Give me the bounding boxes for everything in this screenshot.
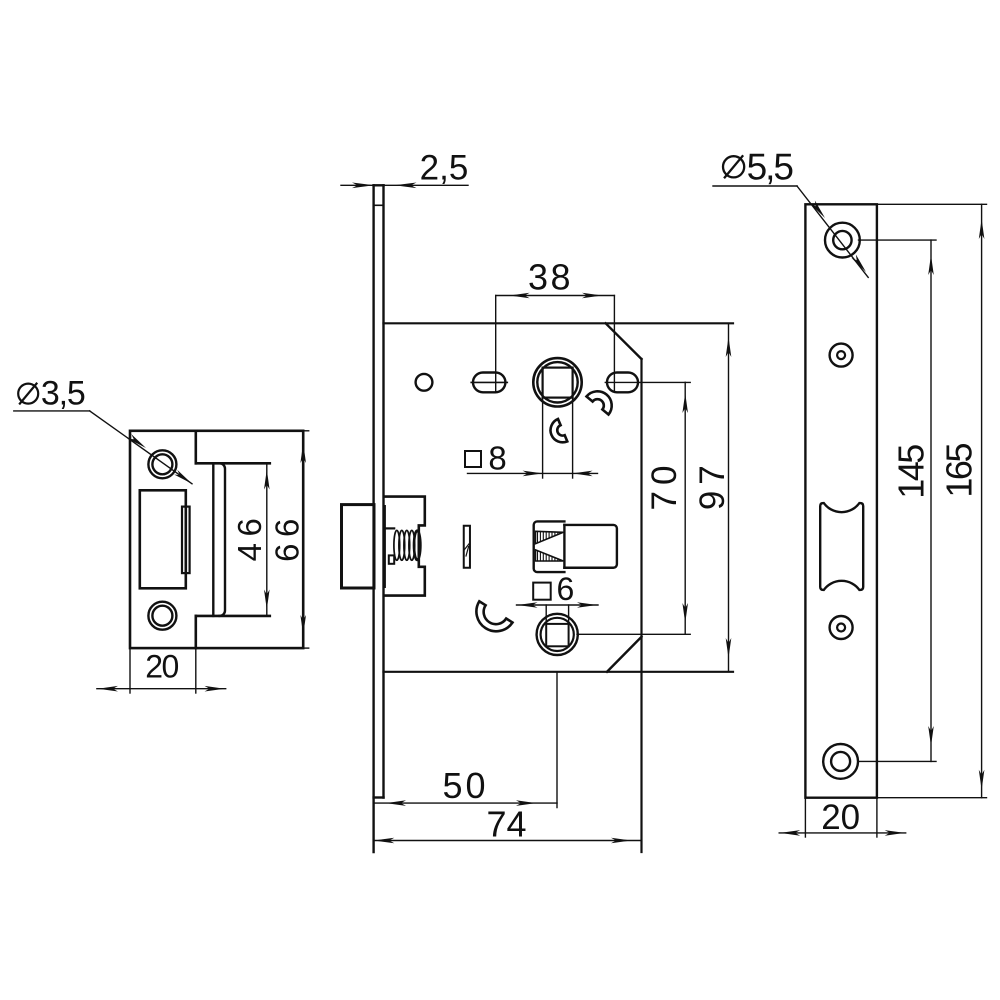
- svg-text:46: 46: [231, 512, 268, 562]
- svg-text:3,5: 3,5: [41, 375, 85, 413]
- svg-text:5,5: 5,5: [747, 146, 794, 187]
- svg-text:145: 145: [891, 445, 932, 499]
- svg-text:38: 38: [528, 257, 573, 298]
- svg-text:50: 50: [442, 765, 488, 806]
- svg-text:66: 66: [269, 512, 306, 562]
- svg-text:97: 97: [693, 459, 732, 510]
- svg-text:2,5: 2,5: [420, 149, 469, 188]
- svg-text:74: 74: [486, 804, 526, 845]
- svg-text:20: 20: [821, 798, 860, 837]
- svg-text:20: 20: [145, 649, 178, 685]
- svg-text:70: 70: [645, 460, 684, 511]
- svg-text:6: 6: [557, 571, 575, 607]
- svg-text:8: 8: [488, 440, 506, 477]
- svg-text:165: 165: [939, 444, 980, 498]
